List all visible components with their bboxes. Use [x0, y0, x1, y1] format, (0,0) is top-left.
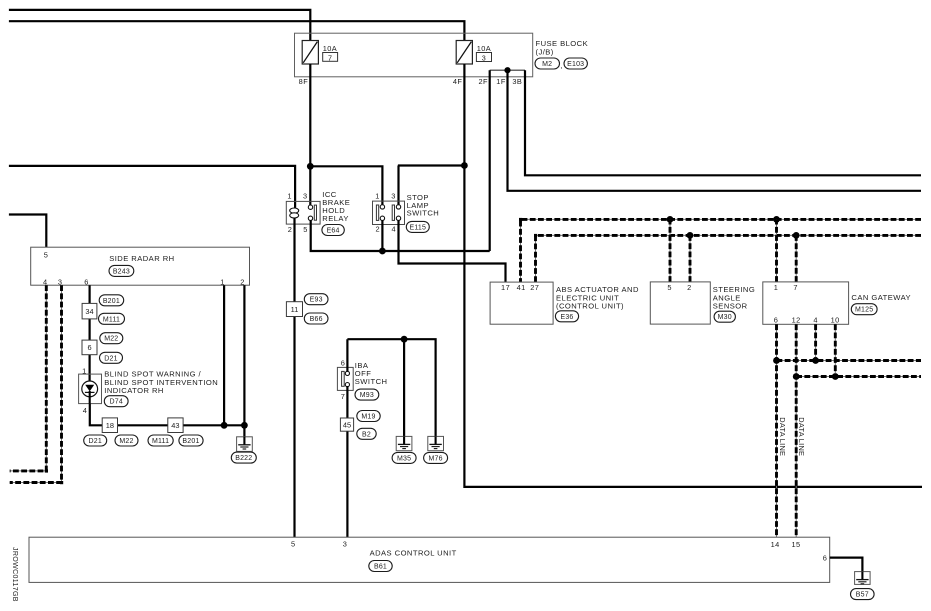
svg-text:B201: B201 — [103, 298, 120, 305]
svg-text:6: 6 — [341, 358, 346, 367]
dashed corner patches — [519, 218, 522, 221]
indicator lamp symbol — [82, 381, 98, 397]
svg-text:E36: E36 — [560, 314, 573, 321]
wire fuse 3 to node 4F — [463, 64, 465, 166]
svg-text:DATA LINE: DATA LINE — [778, 417, 787, 456]
svg-text:1: 1 — [375, 192, 380, 201]
svg-text:M111: M111 — [103, 316, 120, 323]
connector D21 (18/43 row) — [84, 435, 107, 446]
CAN gateway box M125 — [763, 282, 849, 324]
svg-text:2: 2 — [288, 225, 293, 234]
wire relay pin 2 (coil) down to ADAS pin 5 — [293, 218, 295, 537]
connector E36 — [555, 311, 578, 322]
svg-text:1: 1 — [774, 283, 779, 292]
connector E93 — [304, 294, 328, 305]
connector M35 — [392, 452, 416, 463]
svg-text:7: 7 — [341, 392, 346, 401]
ground M35 — [396, 436, 412, 450]
svg-text:B2: B2 — [362, 431, 371, 438]
connector B201 (18/43 row) — [179, 435, 203, 446]
switch IBA OFF SWITCH M93 box — [337, 367, 353, 390]
svg-text:DATA LINE: DATA LINE — [797, 417, 806, 456]
connector M22 (18/43 row) — [115, 435, 138, 446]
connector 45 M19/B2 — [340, 418, 353, 431]
svg-text:11: 11 — [291, 305, 299, 314]
svg-text:10A: 10A — [323, 44, 338, 53]
connector M125 — [851, 304, 877, 315]
node CAN bus / steering 2 — [687, 232, 694, 239]
connector B66 — [304, 313, 328, 324]
node gateway 12 / bus — [793, 373, 800, 380]
connector M76 — [424, 452, 448, 463]
svg-text:6: 6 — [87, 343, 91, 352]
connector D21 — [100, 352, 123, 363]
svg-text:M22: M22 — [119, 438, 133, 445]
node gateway 10 / bus — [832, 373, 839, 380]
node CAN bus / gateway 7 — [793, 232, 800, 239]
relay coil — [290, 208, 299, 213]
svg-text:M35: M35 — [397, 455, 411, 462]
connector 18 — [102, 418, 117, 433]
stop lamp switch left element — [376, 205, 378, 220]
connector B243 — [109, 265, 134, 276]
connector B2 — [357, 428, 376, 439]
shielded CAN bus line upper (to ABS 41) — [521, 219, 922, 282]
wire IBA pin 6 to grounds M35 M76 — [347, 339, 435, 436]
svg-text:6: 6 — [774, 315, 779, 324]
node CAN bus / gateway 1 — [773, 216, 780, 223]
svg-text:1: 1 — [220, 277, 225, 286]
svg-text:12: 12 — [792, 315, 801, 324]
svg-text:3: 3 — [343, 540, 348, 549]
ground M76 — [428, 436, 444, 450]
svg-text:D21: D21 — [104, 355, 117, 362]
side radar RH box B243 — [31, 247, 250, 285]
svg-text:7: 7 — [793, 283, 798, 292]
wire inside indicator — [89, 391, 91, 404]
svg-text:B66: B66 — [310, 316, 323, 323]
svg-text:E103: E103 — [567, 61, 584, 68]
svg-text:4F: 4F — [453, 77, 463, 86]
svg-text:1F: 1F — [496, 77, 506, 86]
wire fuse 7 to node 8F — [309, 64, 311, 166]
svg-text:4: 4 — [391, 225, 396, 234]
svg-text:,: , — [560, 61, 563, 70]
svg-text:10A: 10A — [477, 44, 492, 53]
node gateway 6 / bus — [773, 357, 780, 364]
connector M111 — [99, 313, 125, 324]
wire battery feed to fuse 7 — [9, 10, 310, 41]
svg-text:6: 6 — [823, 554, 828, 563]
svg-text:M2: M2 — [542, 61, 552, 68]
node CAN bus / steering 5 — [667, 216, 674, 223]
stop lamp switch right element — [392, 205, 394, 220]
svg-text:M111: M111 — [152, 438, 169, 445]
svg-text:B61: B61 — [374, 564, 387, 571]
svg-text:5: 5 — [667, 283, 672, 292]
svg-text:B201: B201 — [182, 438, 199, 445]
shielded wire to CAN gateway pin 1 — [776, 219, 778, 282]
svg-text:D74: D74 — [109, 399, 122, 406]
svg-text:41: 41 — [517, 283, 526, 292]
svg-text:M19: M19 — [361, 414, 375, 421]
node junction 8F/relay — [307, 163, 314, 170]
wire stop switch pin 4 to ABS pin 17 — [399, 221, 506, 283]
svg-text:1: 1 — [82, 366, 87, 375]
wire 4F junction down and right to page edge — [464, 166, 922, 487]
wire radar pin 1 down — [223, 285, 225, 425]
svg-text:5: 5 — [291, 540, 296, 549]
node junction radar pin 2 — [241, 422, 248, 429]
svg-text:ADAS CONTROL UNIT: ADAS CONTROL UNIT — [370, 549, 457, 558]
steering angle sensor box M30 — [650, 282, 710, 324]
svg-text:M30: M30 — [718, 314, 732, 321]
svg-text:2: 2 — [687, 283, 692, 292]
svg-text:3: 3 — [303, 192, 308, 201]
svg-text:5: 5 — [44, 251, 49, 260]
ground B222 — [237, 437, 253, 452]
svg-text:45: 45 — [343, 420, 351, 429]
svg-text:14: 14 — [771, 540, 780, 549]
svg-text:2: 2 — [375, 225, 380, 234]
node junction radar pin 1 — [221, 422, 228, 429]
ABS actuator and electric unit box E36 — [490, 282, 553, 324]
svg-text:SIDE RADAR RH: SIDE RADAR RH — [109, 254, 174, 263]
svg-text:B243: B243 — [113, 268, 130, 275]
svg-text:D21: D21 — [88, 438, 101, 445]
shielded wire to CAN gateway pin 7 — [795, 235, 797, 282]
fuse 10A 7 — [302, 41, 318, 65]
svg-text:M22: M22 — [104, 336, 118, 343]
svg-text:7: 7 — [328, 53, 332, 62]
wire ADAS pin 6 to ground B57 — [830, 558, 863, 572]
svg-text:(J/B): (J/B) — [536, 48, 554, 57]
wire stop switch pin 2 down — [381, 221, 383, 252]
svg-text:M76: M76 — [428, 455, 442, 462]
svg-text:JROWC0117GB: JROWC0117GB — [11, 547, 19, 602]
connector E64 — [322, 225, 344, 236]
svg-text:SWITCH: SWITCH — [355, 377, 388, 386]
svg-text:CAN GATEWAY: CAN GATEWAY — [851, 293, 911, 302]
connector B57 — [851, 589, 875, 600]
svg-text:8F: 8F — [299, 77, 309, 86]
svg-text:17: 17 — [501, 283, 510, 292]
relay ICC BRAKE HOLD RELAY E64 box — [286, 201, 320, 224]
svg-text:B57: B57 — [856, 592, 869, 599]
svg-text:43: 43 — [171, 421, 179, 430]
connector M2 — [535, 58, 560, 69]
svg-text:3: 3 — [391, 192, 396, 201]
svg-text:4: 4 — [813, 315, 818, 324]
svg-text:18: 18 — [106, 421, 114, 430]
node junction ground branch — [401, 336, 408, 343]
svg-text:M125: M125 — [855, 307, 873, 314]
svg-text:RELAY: RELAY — [322, 214, 349, 223]
svg-text:E93: E93 — [310, 297, 323, 304]
svg-text:34: 34 — [85, 307, 93, 316]
connector B61 — [369, 561, 392, 572]
svg-text:2F: 2F — [478, 77, 488, 86]
fuse block (J/B) box M2 E103 — [295, 33, 533, 77]
svg-text:E64: E64 — [327, 228, 340, 235]
bus bar 2F 1F 3B inside fuse block — [490, 69, 525, 71]
ground B57 — [855, 572, 871, 585]
shielded wire gateway pin 12 to ADAS pin 15 (DATA LINE) — [795, 324, 797, 537]
wire 3B down and right to page edge — [525, 70, 921, 175]
svg-text:INDICATOR RH: INDICATOR RH — [104, 386, 164, 395]
svg-text:1: 1 — [287, 192, 292, 201]
connector 43 — [168, 418, 183, 433]
connector B222 — [231, 452, 256, 463]
svg-text:2: 2 — [240, 277, 245, 286]
connector M111 (18/43 row) — [148, 435, 173, 446]
svg-text:4: 4 — [43, 277, 48, 286]
svg-text:B222: B222 — [235, 455, 252, 462]
connector 11 E93/B66 — [286, 302, 302, 317]
wire 8F junction to relay pin 3 — [309, 166, 311, 205]
shielded wire to steering sensor pin 5 — [669, 219, 671, 282]
connector M30 — [714, 311, 735, 322]
fuse 10A 3 — [456, 41, 472, 65]
connector M19 — [357, 411, 380, 422]
shielded CAN bus line lower (to ABS 27) — [536, 235, 922, 282]
shielded wire to steering sensor pin 2 — [689, 235, 691, 282]
svg-text:27: 27 — [530, 283, 539, 292]
svg-text:3: 3 — [58, 277, 63, 286]
connector M93 — [355, 389, 379, 400]
ADAS control unit box B61 — [29, 537, 830, 582]
wire indicator pin 4 to ground junctions — [90, 404, 245, 426]
node junction 4F — [461, 162, 468, 169]
relay contact circles and armature — [308, 205, 312, 209]
svg-text:5: 5 — [303, 225, 308, 234]
svg-text:10: 10 — [831, 315, 840, 324]
shielded wire radar pin 4 to left page edge — [10, 285, 47, 471]
wire 8F junction to stop lamp switch pin 1 — [310, 166, 382, 205]
svg-text:3B: 3B — [512, 77, 522, 86]
wire radar pin 2 down to ground B222 — [243, 285, 245, 437]
wire battery feed to fuse 3 — [9, 21, 465, 40]
wire left feed to relay pin 1 — [9, 166, 295, 208]
shielded wire gateway pin 6 to ADAS pin 14 (DATA LINE) — [776, 324, 778, 537]
shielded wire gateway pin 4 — [815, 324, 817, 360]
wire IBA pin 7 to ADAS pin 3 — [346, 386, 348, 537]
wire branch to ground M35 — [403, 339, 405, 436]
wire 4F junction to stop lamp switch pin 3 — [398, 166, 465, 205]
wire 2F down to stop lamp output net — [489, 70, 491, 251]
wire radar pin 6 to indicator pin 1 — [88, 285, 90, 381]
svg-text:4: 4 — [83, 406, 88, 415]
shielded bus from gateway 12 to page edge — [796, 376, 921, 378]
svg-text:15: 15 — [791, 540, 800, 549]
wire relay pin 5 to 2F net — [311, 221, 490, 252]
connector E103 — [564, 58, 587, 69]
shielded bus from gateway 6 to page edge — [777, 360, 922, 362]
svg-text:E115: E115 — [409, 224, 426, 231]
svg-text:3: 3 — [482, 54, 486, 63]
connector E115 — [406, 221, 429, 232]
svg-text:SWITCH: SWITCH — [407, 209, 440, 218]
switch STOP LAMP SWITCH E115 box — [373, 201, 405, 224]
node gateway 4 / bus — [812, 357, 819, 364]
connector 34 B201/M111 — [82, 303, 97, 319]
connector M22 — [100, 333, 123, 344]
shielded wire radar pin 3 to left page edge — [10, 285, 62, 482]
wire left feed to side radar pin 5 — [9, 215, 46, 248]
svg-text:SENSOR: SENSOR — [713, 301, 748, 310]
svg-text:FUSE BLOCK: FUSE BLOCK — [536, 39, 589, 48]
wire 1F down and right to page edge — [508, 70, 922, 191]
connector B201 — [99, 295, 124, 306]
svg-text:6: 6 — [84, 277, 89, 286]
indicator lamp BLIND SPOT WARNING box — [79, 374, 102, 404]
connector 6 M22/D21 — [82, 340, 97, 355]
connector D74 — [104, 396, 128, 407]
node junction stop pin 2 / relay 5 / 2F — [379, 248, 386, 255]
shielded wire gateway pin 10 — [834, 324, 836, 376]
svg-text:(CONTROL UNIT): (CONTROL UNIT) — [556, 301, 624, 310]
svg-text:M93: M93 — [360, 392, 374, 399]
